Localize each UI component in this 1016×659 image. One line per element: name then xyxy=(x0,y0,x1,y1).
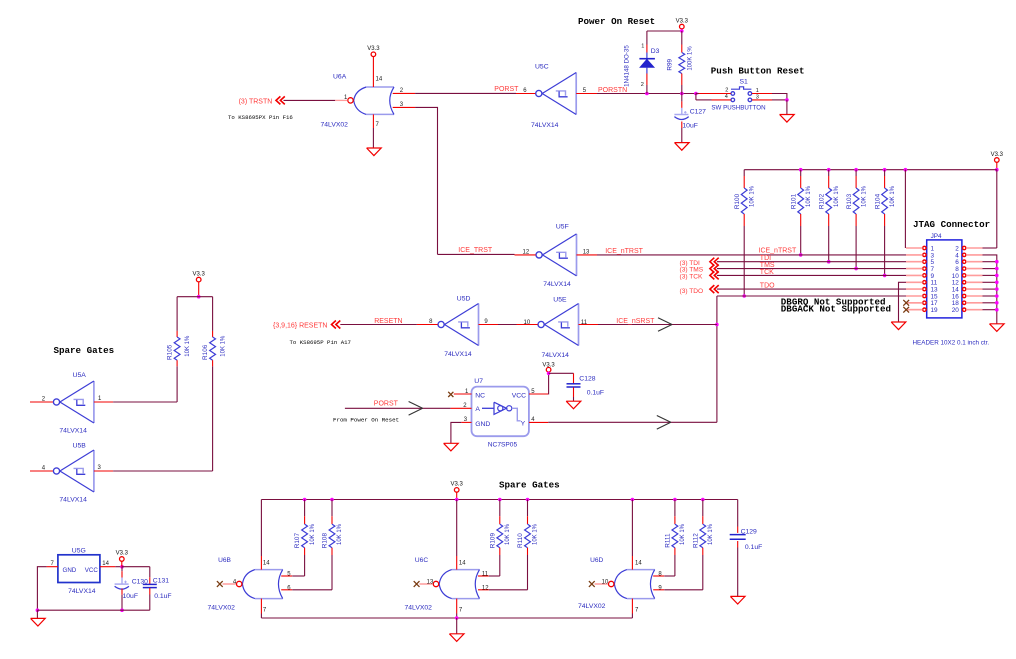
svg-text:0.1uF: 0.1uF xyxy=(587,390,604,397)
svg-text:10K 1%: 10K 1% xyxy=(861,185,867,207)
svg-text:A: A xyxy=(475,406,480,413)
svg-text:V3.3: V3.3 xyxy=(367,46,380,52)
svg-text:D3: D3 xyxy=(651,48,660,55)
svg-text:10K 1%: 10K 1% xyxy=(806,185,812,207)
svg-text:74LVX02: 74LVX02 xyxy=(321,122,349,129)
svg-text:U7: U7 xyxy=(474,378,483,385)
svg-text:PORST: PORST xyxy=(374,401,399,408)
svg-text:74LVX02: 74LVX02 xyxy=(405,604,433,611)
svg-text:VCC: VCC xyxy=(512,392,526,399)
svg-text:74LVX14: 74LVX14 xyxy=(68,588,96,595)
svg-text:V3.3: V3.3 xyxy=(676,18,689,24)
svg-text:14: 14 xyxy=(102,561,109,567)
svg-text:C128: C128 xyxy=(579,375,595,382)
svg-text:V3.3: V3.3 xyxy=(116,551,129,557)
svg-text:RESETN: RESETN xyxy=(374,318,402,325)
svg-text:14: 14 xyxy=(635,560,642,566)
svg-text:1N4148 DO-35: 1N4148 DO-35 xyxy=(623,45,630,87)
svg-text:Spare Gates: Spare Gates xyxy=(499,480,560,491)
svg-text:2: 2 xyxy=(641,82,644,88)
svg-text:R108: R108 xyxy=(322,533,329,549)
svg-text:14: 14 xyxy=(376,77,383,83)
svg-text:R101: R101 xyxy=(791,193,798,209)
svg-text:74LVX14: 74LVX14 xyxy=(59,428,87,435)
svg-text:SW PUSHBUTTON: SW PUSHBUTTON xyxy=(711,104,765,111)
svg-text:R100: R100 xyxy=(734,193,741,209)
svg-text:1: 1 xyxy=(641,44,644,50)
svg-text:10: 10 xyxy=(602,579,609,585)
svg-text:14: 14 xyxy=(459,560,466,566)
svg-text:V3.3: V3.3 xyxy=(193,271,206,277)
svg-text:74LVX02: 74LVX02 xyxy=(578,603,606,610)
svg-text:(3) TRSTN: (3) TRSTN xyxy=(239,99,273,106)
svg-text:R111: R111 xyxy=(665,533,672,548)
svg-text:TCK: TCK xyxy=(760,269,774,276)
svg-text:TDO: TDO xyxy=(760,283,775,290)
svg-text:2: 2 xyxy=(725,88,728,94)
svg-text:R104: R104 xyxy=(874,193,881,209)
svg-text:V3.3: V3.3 xyxy=(991,152,1004,158)
svg-text:74LVX02: 74LVX02 xyxy=(208,604,236,611)
svg-text:74LVX14: 74LVX14 xyxy=(59,497,87,504)
svg-text:R103: R103 xyxy=(846,193,853,209)
svg-text:C127: C127 xyxy=(690,109,706,116)
svg-text:10K 1%: 10K 1% xyxy=(310,523,316,545)
svg-text:74LVX14: 74LVX14 xyxy=(531,122,559,129)
svg-text:R99: R99 xyxy=(666,58,673,70)
svg-text:10: 10 xyxy=(524,320,531,326)
svg-text:10uF: 10uF xyxy=(123,593,139,600)
svg-text:R110: R110 xyxy=(517,533,524,548)
svg-text:Push Button Reset: Push Button Reset xyxy=(711,66,805,77)
svg-text:U6C: U6C xyxy=(415,557,428,564)
svg-text:10K 1%: 10K 1% xyxy=(680,523,686,545)
svg-text:NC: NC xyxy=(475,392,485,399)
svg-text:PORST: PORST xyxy=(494,86,519,93)
svg-text:C131: C131 xyxy=(153,578,169,585)
svg-text:100K 1%: 100K 1% xyxy=(688,46,694,71)
svg-text:12: 12 xyxy=(523,250,530,256)
svg-text:GND: GND xyxy=(475,421,490,428)
svg-text:10K 1%: 10K 1% xyxy=(220,335,226,357)
svg-text:Power On Reset: Power On Reset xyxy=(578,16,655,27)
svg-text:(3) TCK: (3) TCK xyxy=(680,274,704,281)
svg-text:V3.3: V3.3 xyxy=(542,363,555,369)
svg-text:20: 20 xyxy=(952,307,960,314)
svg-text:R112: R112 xyxy=(692,533,699,548)
svg-text:{3,9,16} RESETN: {3,9,16} RESETN xyxy=(273,322,327,329)
svg-text:R107: R107 xyxy=(294,533,301,549)
svg-text:11: 11 xyxy=(581,320,588,326)
svg-text:ICE_nTRST: ICE_nTRST xyxy=(759,247,797,254)
svg-text:R109: R109 xyxy=(489,533,496,549)
svg-text:10K 1%: 10K 1% xyxy=(185,335,191,357)
svg-text:14: 14 xyxy=(263,560,270,566)
svg-text:From Power On Reset: From Power On Reset xyxy=(333,416,399,423)
svg-text:74LVX14: 74LVX14 xyxy=(542,352,570,359)
svg-text:DBGACK Not Supported: DBGACK Not Supported xyxy=(781,304,891,315)
svg-text:JTAG Connector: JTAG Connector xyxy=(913,219,990,230)
svg-text:12: 12 xyxy=(482,585,489,591)
svg-text:10K 1%: 10K 1% xyxy=(533,523,539,545)
svg-text:(3) TDO: (3) TDO xyxy=(680,288,704,295)
svg-text:U5E: U5E xyxy=(553,296,567,303)
svg-text:10K 1%: 10K 1% xyxy=(749,185,755,207)
svg-text:Spare Gates: Spare Gates xyxy=(54,345,115,356)
svg-text:C129: C129 xyxy=(741,529,757,536)
svg-text:4: 4 xyxy=(725,94,728,100)
svg-text:U6B: U6B xyxy=(218,557,231,564)
svg-text:Y: Y xyxy=(521,420,526,427)
svg-text:R106: R106 xyxy=(202,344,209,360)
svg-text:HEADER 10X2 0.1 inch ctr.: HEADER 10X2 0.1 inch ctr. xyxy=(913,339,990,346)
svg-text:R105: R105 xyxy=(167,344,174,360)
svg-text:U5C: U5C xyxy=(535,64,549,71)
svg-text:11: 11 xyxy=(482,572,489,578)
svg-text:0.1uF: 0.1uF xyxy=(154,593,171,600)
svg-text:VCC: VCC xyxy=(85,567,99,574)
svg-text:U5B: U5B xyxy=(73,443,87,450)
svg-text:ICE_nSRST: ICE_nSRST xyxy=(616,318,655,325)
svg-text:ICE_TRST: ICE_TRST xyxy=(458,247,493,254)
svg-text:U6A: U6A xyxy=(333,74,347,81)
svg-text:19: 19 xyxy=(931,307,939,314)
svg-text:GND: GND xyxy=(63,567,77,574)
svg-text:10K 1%: 10K 1% xyxy=(505,523,511,545)
svg-text:74LVX14: 74LVX14 xyxy=(444,351,472,358)
svg-text:0.1uF: 0.1uF xyxy=(745,544,762,551)
svg-text:NC7SP05: NC7SP05 xyxy=(488,441,518,448)
svg-text:ICE_nTRST: ICE_nTRST xyxy=(605,248,643,255)
svg-text:74LVX14: 74LVX14 xyxy=(543,281,571,288)
svg-text:PORSTN: PORSTN xyxy=(598,87,627,94)
svg-text:10K 1%: 10K 1% xyxy=(708,523,714,545)
svg-text:13: 13 xyxy=(427,579,434,585)
svg-text:U5G: U5G xyxy=(72,548,86,555)
svg-text:U5F: U5F xyxy=(556,224,569,231)
svg-text:To KS8695P Pin A17: To KS8695P Pin A17 xyxy=(290,339,351,346)
svg-text:U6D: U6D xyxy=(590,557,603,564)
svg-text:R102: R102 xyxy=(819,193,826,209)
svg-text:10K 1%: 10K 1% xyxy=(337,523,343,545)
svg-text:10uF: 10uF xyxy=(682,122,698,129)
svg-text:10K 1%: 10K 1% xyxy=(834,185,840,207)
svg-text:U5A: U5A xyxy=(73,372,87,379)
svg-text:V3.3: V3.3 xyxy=(451,482,464,488)
svg-text:13: 13 xyxy=(583,250,590,256)
svg-text:JP4: JP4 xyxy=(931,233,942,240)
svg-text:1: 1 xyxy=(756,88,759,94)
svg-text:To KS8695PX Pin F16: To KS8695PX Pin F16 xyxy=(228,114,293,121)
svg-text:10K 1%: 10K 1% xyxy=(890,185,896,207)
svg-text:3: 3 xyxy=(756,95,759,101)
svg-text:U5D: U5D xyxy=(457,296,471,303)
svg-text:S1: S1 xyxy=(740,79,749,86)
